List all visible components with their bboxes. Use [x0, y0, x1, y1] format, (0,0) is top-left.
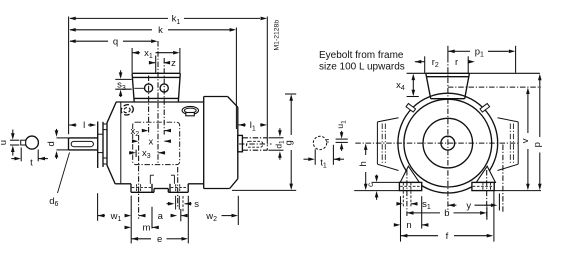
dimension r2 / r	[415, 60, 422, 64]
extension line e left	[130, 196, 132, 244]
box top extension line	[407, 72, 426, 74]
shaft shoulder	[97, 122, 99, 169]
eyebolt ring (side view)	[182, 106, 198, 114]
dimension g bottom extension	[232, 189, 296, 191]
dimension w2	[181, 214, 188, 218]
dimension s1	[396, 203, 398, 205]
dimension g	[285, 93, 296, 95]
dimension u extension lines	[10, 139, 19, 141]
lug right	[480, 103, 490, 112]
dimension d1 arrows	[278, 130, 282, 137]
extension line f left	[400, 196, 402, 241]
dimension b	[407, 211, 414, 215]
svg-text:k: k	[158, 25, 163, 36]
dimension l1	[239, 123, 246, 127]
dimension u arrows	[11, 133, 15, 140]
bearing cap outer	[102, 122, 104, 167]
svg-text:n: n	[406, 220, 411, 231]
body bottom line	[115, 183, 131, 185]
extension line n right	[421, 196, 423, 228]
motor endshield outline left	[107, 102, 116, 184]
end view horizontal centerline	[355, 142, 519, 144]
end view vertical centerline	[447, 57, 449, 211]
terminal box (end view)	[426, 72, 470, 74]
svg-text:v: v	[520, 138, 531, 143]
left foot centerline	[406, 170, 408, 216]
belly line between feet	[154, 188, 168, 190]
dimension a	[139, 214, 146, 218]
svg-text:t: t	[30, 158, 33, 169]
rear shaft keyway (hidden)	[246, 141, 262, 147]
svg-text:m: m	[142, 223, 150, 234]
left foot (end view)	[399, 182, 421, 190]
dimension p1	[447, 46, 449, 57]
dimension d extension lines	[57, 137, 69, 139]
dimension t1	[314, 149, 316, 165]
svg-text:e: e	[157, 234, 162, 245]
dimension h	[364, 143, 368, 150]
shaft section detail circle	[25, 136, 38, 149]
front foot centerline	[138, 135, 140, 219]
svg-text:y: y	[466, 200, 471, 211]
dimension x3	[128, 152, 131, 154]
phantom terminal box outline (alternate position)	[133, 122, 180, 164]
foot corner bracket 2	[173, 175, 175, 184]
dimension k	[70, 29, 152, 31]
dimension k1	[70, 17, 168, 19]
svg-text:q: q	[113, 36, 118, 47]
svg-text:x: x	[149, 136, 154, 147]
foot top extension line	[372, 181, 400, 183]
dimension v	[526, 88, 530, 95]
dimension d1 extension lines	[269, 137, 284, 139]
svg-text:p: p	[532, 142, 543, 147]
endshield joint line	[120, 102, 122, 184]
baseline (feet bottom)	[354, 190, 399, 192]
dimension l	[69, 123, 76, 127]
motor body top	[116, 101, 204, 103]
dimension t	[20, 148, 22, 162]
right foot gusset rib	[476, 166, 495, 182]
svg-text:M1-2128b: M1-2128b	[274, 20, 281, 51]
shaft	[69, 137, 98, 139]
svg-text:g: g	[284, 140, 295, 145]
dimension s	[167, 203, 169, 205]
rear shaft centerline	[239, 143, 272, 145]
rear foot (side view)	[169, 184, 171, 193]
cable gland 2	[160, 84, 168, 92]
cable gland centerline 1	[148, 76, 150, 135]
eyebolt height centerline	[448, 86, 541, 88]
svg-text:f: f	[446, 231, 449, 242]
svg-text:u: u	[0, 140, 9, 145]
dimension k1 extension line left (shaft end)	[68, 17, 70, 135]
svg-text:d: d	[46, 141, 57, 146]
motor outer circle	[398, 93, 498, 193]
shaft section keyway notch	[21, 140, 26, 145]
dimension u1 lines	[336, 138, 348, 140]
fan cowl	[203, 97, 205, 189]
svg-text:l: l	[83, 120, 85, 131]
rear foot centerline	[177, 167, 179, 207]
svg-text:size 100 L upwards: size 100 L upwards	[319, 61, 405, 72]
dimension w1	[98, 214, 105, 218]
endshield boss circle	[423, 118, 473, 168]
dimension q	[70, 40, 108, 42]
dimension e	[132, 237, 139, 241]
dimension d arrows	[55, 130, 59, 137]
cooling fins right	[517, 122, 519, 164]
dimension p	[538, 74, 542, 81]
rear shaft section detail circle (hidden)	[313, 136, 326, 149]
dimension z	[149, 62, 155, 64]
eyebolt stem	[186, 113, 195, 116]
svg-text:a: a	[158, 211, 164, 222]
dimension n	[393, 224, 395, 226]
dimension x1	[131, 48, 133, 73]
label d6 with leader	[58, 153, 70, 194]
rear shaft shoulder	[238, 135, 243, 151]
dimension m	[124, 226, 126, 228]
svg-text:Eyebolt from frame: Eyebolt from frame	[319, 50, 404, 61]
cable gland centerline 2	[163, 58, 165, 135]
dimension u1 arrows	[340, 132, 344, 139]
extension line f right	[493, 190, 495, 241]
svg-text:r: r	[455, 57, 458, 68]
cooling fins left	[376, 122, 378, 164]
front foot (side view)	[130, 184, 132, 193]
foot corner bracket 1	[149, 175, 151, 184]
extension line e right	[187, 196, 189, 244]
svg-text:b: b	[444, 208, 449, 219]
shaft keyway slot	[71, 141, 93, 146]
dimension x	[131, 140, 134, 142]
right foot (end view)	[472, 182, 494, 190]
eyebolt broken symbol (side view)	[120, 103, 135, 117]
dimension y	[448, 203, 455, 207]
frame face circle	[404, 99, 492, 187]
cable gland 1	[145, 84, 153, 92]
dimension k extension line (fan cowl)	[235, 28, 237, 130]
dimension w1 extension left	[97, 193, 99, 221]
shaft circle (end view)	[441, 136, 455, 150]
dimension f	[401, 234, 408, 238]
rear shaft phantom outline	[242, 137, 267, 139]
left foot gusset rib	[400, 166, 419, 182]
right foot centerline	[486, 170, 488, 220]
svg-text:z: z	[171, 58, 176, 69]
terminal box (side view)	[132, 72, 180, 74]
lug left	[406, 103, 416, 112]
rear keyway notch	[327, 139, 329, 141]
svg-text:h: h	[358, 161, 369, 166]
dimension s3	[119, 72, 123, 79]
svg-text:s: s	[194, 199, 199, 210]
bearing hub	[103, 129, 107, 131]
dimension k1 extension line right (rear shaft end)	[266, 17, 268, 138]
dimension c	[375, 176, 379, 183]
terminal box centerline	[157, 41, 159, 165]
